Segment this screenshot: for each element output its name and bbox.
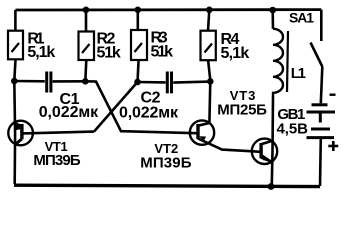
svg-text:51k: 51k (151, 44, 174, 61)
svg-text:МП39Б: МП39Б (33, 152, 80, 169)
svg-text:L1: L1 (291, 65, 306, 82)
svg-text:МП25Б: МП25Б (217, 102, 267, 119)
svg-text:SA1: SA1 (289, 10, 314, 26)
svg-text:51k: 51k (97, 45, 121, 62)
svg-text:МП39Б: МП39Б (140, 155, 192, 172)
svg-text:5,1k: 5,1k (221, 45, 250, 62)
svg-text:5,1k: 5,1k (27, 44, 55, 61)
svg-text:0,022мк: 0,022мк (119, 105, 179, 122)
svg-text:0,022мк: 0,022мк (39, 104, 99, 121)
svg-text:4,5В: 4,5В (277, 121, 309, 138)
